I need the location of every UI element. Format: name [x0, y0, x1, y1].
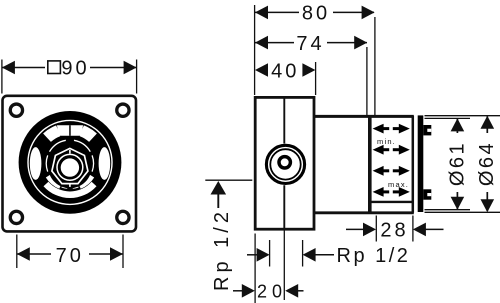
min-max arrows row1 [373, 124, 410, 134]
top notch cutout [57, 125, 83, 136]
svg-text:20: 20 [257, 282, 287, 302]
body outer circle [266, 145, 304, 183]
flange line 1 [412, 116, 415, 213]
svg-text:Ø64: Ø64 [476, 141, 498, 186]
front plate [3, 96, 137, 232]
nut heptagon [52, 148, 88, 183]
hub arc NW [50, 140, 66, 151]
svg-text:max.: max. [388, 180, 409, 189]
extension line right dim 70 [122, 235, 124, 269]
upper-right slot [80, 125, 97, 141]
svg-text:90: 90 [61, 58, 89, 80]
extension lines dia61 [425, 117, 471, 119]
svg-text:70: 70 [56, 245, 84, 267]
dimension 80 [255, 6, 375, 20]
hub tick top [69, 150, 71, 154]
rosette inner ring line [28, 120, 112, 204]
min-max arrows row3 [373, 166, 410, 176]
body side view [255, 97, 314, 229]
Rp 1-2 left leader line [205, 179, 252, 181]
extension line left of square90 [1, 60, 3, 94]
hub disc [48, 145, 92, 189]
svg-text:Ø61: Ø61 [446, 141, 468, 186]
cartridge tube bottom line [314, 211, 414, 214]
hole bottom-left [10, 211, 22, 223]
square symbol of dim 90 [48, 61, 61, 74]
extension line Rp12 left [269, 240, 271, 267]
top notch tick [69, 125, 71, 136]
body small circle [279, 157, 290, 168]
extension line left of 80-74-40 [254, 5, 256, 95]
bottom blob right [72, 182, 79, 189]
top clip [423, 125, 431, 135]
extension line 80 [374, 17, 376, 116]
centerline below body [283, 229, 285, 300]
min-max arrows row2 [373, 145, 410, 155]
dimension 20 [233, 284, 304, 298]
dimension diameter 64 [481, 116, 495, 213]
arrow box bottom inner line [371, 201, 412, 203]
min-max arrows row4 [373, 187, 410, 197]
rosette outer black disc [19, 111, 122, 214]
bottom-right slot [78, 174, 94, 189]
body inner line [283, 98, 285, 144]
dimension 28 [346, 223, 444, 237]
dimension diameter 61 [451, 118, 465, 209]
right lens cutout [99, 147, 111, 180]
spindle hole [61, 158, 79, 176]
dimension 74 [255, 36, 367, 50]
hub arc W [46, 155, 47, 171]
svg-text:40: 40 [271, 60, 299, 82]
hub arc S [62, 186, 78, 187]
hole bottom-right [117, 211, 129, 223]
hub arc E [92, 155, 93, 171]
extension line 74 [366, 47, 368, 116]
left lens cutout [30, 147, 42, 180]
cartridge tube top line [314, 115, 414, 118]
svg-text:74: 74 [296, 33, 324, 55]
extension line 20 [254, 234, 256, 303]
svg-text:Rp 1/2: Rp 1/2 [337, 245, 411, 267]
hub arc NE [74, 140, 90, 151]
dimension square-90 line [2, 61, 137, 75]
bottom crescent cutout [44, 182, 97, 198]
extension line 28 right [412, 216, 414, 242]
body middle circle [270, 149, 300, 179]
dimension 70 [17, 247, 123, 261]
svg-text:min.: min. [377, 137, 396, 146]
hole top-right [117, 104, 129, 116]
extension line 40 [315, 62, 317, 95]
end flange bar [418, 115, 424, 212]
Rp 1-2 left leader arrow [211, 181, 227, 195]
bottom-left slot [46, 174, 62, 189]
hub tick bottom [69, 183, 71, 187]
bottom blob left [61, 182, 68, 189]
dimension Rp 1-2 center arrows [247, 248, 334, 262]
spindle ring [57, 154, 83, 180]
upper-left slot [43, 125, 60, 141]
cartridge end wall [368, 115, 372, 214]
svg-text:28: 28 [380, 220, 408, 242]
extension line 28 left [375, 216, 377, 242]
svg-text:Rp 1/2: Rp 1/2 [211, 208, 233, 291]
svg-text:80: 80 [302, 3, 330, 25]
extension line Rp12 right [302, 240, 304, 267]
dimension 40 [255, 63, 315, 77]
extension lines dia64 [425, 115, 500, 117]
valve rosette [19, 111, 122, 214]
extension line left dim 70 [16, 235, 18, 269]
hole top-left [10, 104, 22, 116]
extension line right of square90 [136, 60, 138, 94]
bottom clip [423, 189, 431, 199]
